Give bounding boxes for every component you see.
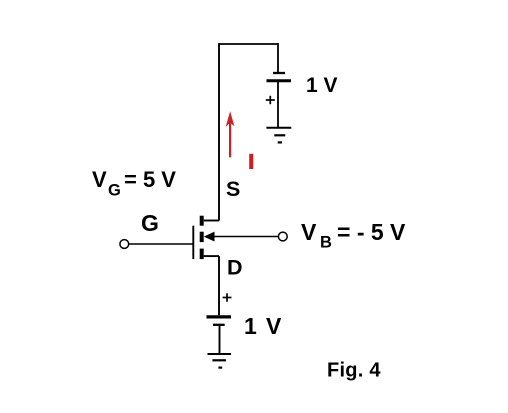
svg-text:1 V: 1 V — [306, 74, 338, 97]
ground (bottom) — [208, 354, 232, 368]
battery B1 long plate — [267, 79, 292, 82]
svg-text:V: V — [301, 219, 317, 245]
wire from battery B1 to top ground — [277, 81, 279, 128]
channel middle contact (bulk) — [200, 232, 204, 242]
svg-text:1: 1 — [244, 313, 257, 339]
svg-text:= - 5 V: = - 5 V — [337, 219, 406, 245]
transistor Q1 (4-terminal MOSFET) — [193, 216, 219, 259]
drain lead — [204, 255, 219, 257]
battery B2 short plate — [213, 324, 225, 326]
plus sign of battery B1 — [266, 96, 275, 104]
svg-text:= 5 V: = 5 V — [124, 167, 176, 192]
source lead — [204, 220, 219, 222]
svg-text:D: D — [227, 255, 243, 279]
label I (current) — [249, 154, 253, 169]
battery B1 (1 V, top) short plate — [273, 72, 285, 74]
wire from gate terminal to MOSFET gate — [129, 243, 193, 245]
svg-text:G: G — [108, 182, 121, 200]
wire from battery B2 to bottom ground — [219, 326, 221, 354]
wire from drain lead down to battery B2 — [218, 256, 220, 315]
ground (top) — [266, 128, 291, 143]
wire right vertical from top corner to battery B1 — [277, 43, 279, 72]
wire from bulk to VB terminal — [214, 236, 279, 238]
battery B2 (1 V, bottom) long plate — [207, 315, 232, 318]
svg-text:S: S — [226, 177, 240, 201]
wire left vertical from top corner down to MOSFET source lead — [218, 43, 220, 220]
terminal circle for gate input — [120, 240, 129, 249]
svg-text:Fig. 4: Fig. 4 — [327, 360, 381, 382]
wire top horizontal from source branch to battery B1 — [219, 43, 278, 45]
gate bar — [192, 226, 194, 259]
svg-text:V: V — [266, 313, 282, 339]
svg-text:G: G — [141, 210, 159, 236]
svg-text:V: V — [92, 167, 107, 192]
terminal circle for bulk VB — [278, 232, 287, 241]
plus sign of battery B2 — [223, 293, 232, 301]
channel top contact (source) — [200, 216, 204, 226]
bulk arrowhead pointing into channel — [204, 232, 215, 242]
red current arrow I — [226, 111, 235, 157]
channel bottom contact (drain) — [200, 249, 204, 260]
svg-text:B: B — [320, 234, 332, 252]
